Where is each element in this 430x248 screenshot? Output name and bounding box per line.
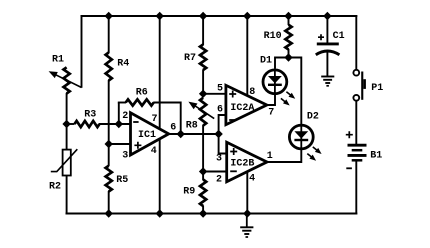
pin 1 label IC2B [267,151,273,162]
wire: R9 to bottom rail [202,206,204,214]
LED D2 light arrows [307,147,321,161]
resistor R3 body [75,121,100,127]
wire: IC1 pin 7 to top rail [159,16,161,129]
label IC2B [230,158,254,169]
wire: IC2B output to D2 [266,150,301,163]
junction: top rail / R7 [199,12,207,20]
svg-text:5: 5 [217,83,223,94]
LED D2 diode [294,126,308,149]
svg-text:1: 1 [267,151,273,162]
pin 6 label IC2A [217,104,223,115]
pin 7 label IC2A [268,107,274,118]
op-amp IC2A minus sign [229,119,235,121]
wire: top rail to R4 [108,16,110,53]
junction: top rail / R4 [105,12,113,20]
LED D2 circle [289,125,313,149]
svg-text:R1: R1 [52,55,64,66]
wire: top rail right drop to P1 [355,15,357,70]
svg-text:6: 6 [217,104,223,115]
label R4 [117,59,129,70]
svg-text:7: 7 [268,107,274,118]
resistor R10 body [285,25,291,50]
wire: IC2A pin 6 from node E [219,115,228,154]
pin 2 label IC2B [216,175,222,186]
ground symbol at C1 [321,77,334,86]
svg-text:2: 2 [216,175,222,186]
battery B1 minus sign [346,167,352,169]
svg-text:R3: R3 [84,109,96,120]
wire: top rail to R10 [288,16,290,25]
LED D1 diode [268,71,282,94]
node C junction R7/R8/IC2A pin 5 [199,90,207,98]
op-amp IC2B triangle [227,142,267,181]
pin 4 label IC1 [151,146,157,157]
label D2 [307,111,319,122]
LED D1 light arrows [281,92,295,106]
wire: node A to R2 [66,123,68,150]
trimmer R8 wiper arrow [188,102,214,119]
junction: R9 / bottom rail [199,209,207,217]
op-amp IC2A triangle [226,85,267,124]
wire: R3 to IC1 pin 2 [99,123,131,125]
junction: IC1 pin 4 / bottom rail [156,209,164,217]
wire: top rail to R7 [202,16,204,45]
resistor R7 body [200,45,206,71]
label IC1 [138,130,156,141]
wire: C1 to ground [326,53,328,77]
svg-text:R7: R7 [184,53,196,64]
label R3 [84,109,96,120]
node F junction R10/D1/D2 [284,53,292,61]
label IC2A [230,103,254,114]
junction: top rail / C1 [323,12,331,20]
wire: R6 left lead [118,102,126,104]
pushbutton P1 bottom contact [353,95,359,101]
junction: IC2B pin4 ground node [243,209,251,217]
wire: R2 bottom to rail [66,175,68,215]
pin 6 label IC1 [170,123,176,134]
svg-text:7: 7 [152,114,158,125]
label R5 [116,175,128,186]
label D1 [260,56,272,67]
wire: R8 to node D [202,125,204,172]
svg-text:R2: R2 [49,182,61,193]
svg-text:R10: R10 [264,31,282,42]
svg-text:R9: R9 [183,187,195,198]
node D junction R8/R9/IC2B pin 2 [199,167,207,175]
trimmer R8 body [200,98,206,126]
wire: node D to IC2B pin 2 [203,171,227,173]
resistor R6 body [126,99,154,105]
label P1 [371,83,383,94]
battery B1 plates [348,145,367,160]
label R10 [264,31,282,42]
wire: R7 to node C [202,70,204,94]
junction: top rail / IC2A pin 8 [243,12,251,20]
junction: top rail / IC1 pin 7 [156,12,164,20]
junction: IC1 pin 2 node [115,120,123,128]
svg-text:8: 8 [249,87,255,98]
label R6 [136,88,148,99]
pushbutton P1 top contact [353,70,359,76]
wire: node B to IC1 pin 3 [109,143,131,145]
svg-text:4: 4 [249,173,255,184]
wire: R1 bottom lead [66,93,68,124]
svg-text:P1: P1 [371,83,383,94]
svg-text:R4: R4 [117,59,129,70]
svg-text:3: 3 [122,151,128,162]
thermistor R2 body [63,150,71,176]
resistor R9 body [200,180,206,207]
pin 5 label IC2A [217,83,223,94]
wire: IC2A output to D1 [266,94,275,106]
junction: R6 / IC1 output [177,130,185,138]
label R7 [184,53,196,64]
junction: top rail / R10 [284,12,292,20]
pin 7 label IC1 [152,114,158,125]
wire: IC1 pin 4 to bottom rail [159,139,161,214]
wire: node B to R5 [108,144,110,166]
node B junction R4/R5/IC1 pin 3 [105,140,113,148]
thermistor R2 strike [51,149,78,171]
wire: P1 to battery positive [355,101,357,144]
op-amp IC1 triangle [131,113,169,155]
label C1 [333,31,345,42]
label R2 [49,182,61,193]
svg-text:4: 4 [151,146,157,157]
ground symbol [240,214,253,238]
pin 3 label IC2B [216,154,222,165]
svg-text:R5: R5 [116,175,128,186]
svg-text:B1: B1 [370,151,382,162]
junction: R5 / bottom rail [105,209,113,217]
trimmer R1 wiper arrow [49,71,82,87]
op-amp IC2A plus sign [229,91,236,98]
pin 8 label IC2A [249,87,255,98]
resistor R4 body [106,53,112,81]
svg-text:D1: D1 [260,56,272,67]
capacitor C1 curved plate [316,51,340,55]
wire: node A to R3 [67,123,75,125]
wire: +V top rail [81,15,358,17]
wire: IC2B pin 4 to bottom rail [246,171,248,214]
op-amp IC1 minus sign [133,121,138,123]
op-amp IC2B plus sign [230,148,237,155]
capacitor C1 plus sign [318,34,324,40]
wire: R10 to node F [288,49,290,58]
svg-text:6: 6 [170,123,176,134]
resistor R5 body [106,166,112,192]
wire: IC1 output pin 6 [167,133,219,135]
svg-text:2: 2 [122,111,128,122]
wire: IC2A pin 8 to top rail [246,16,248,96]
wire: R6 down to IC1 output [180,102,182,135]
node E junction IC1 out/IC2A pin6/IC2B pin3 [214,130,222,138]
svg-text:IC2B: IC2B [230,158,254,169]
LED D1 circle [263,70,287,94]
wire: left +V drop to R1 wiper [81,15,83,88]
trimmer R1 body [64,67,70,93]
op-amp IC1 plus sign [134,142,141,149]
svg-text:R6: R6 [136,88,148,99]
wire: node F to D1 anode [275,58,289,69]
capacitor C1 top plate [317,42,339,45]
op-amp IC2B minus sign [230,170,237,172]
label R9 [183,187,195,198]
svg-text:IC1: IC1 [138,130,156,141]
svg-text:C1: C1 [333,31,345,42]
wire: R6 right lead [153,102,181,104]
pin 4 label IC2B [249,173,255,184]
wire: node F to D2 anode [289,58,302,125]
wire: top rail to C1 [326,16,328,43]
pin 2 label IC1 [122,111,128,122]
pin 3 label IC1 [122,151,128,162]
svg-text:R8: R8 [186,121,198,132]
battery B1 plus sign [346,131,353,138]
wire: R5 to ground rail [108,191,110,214]
svg-text:IC2A: IC2A [230,103,254,114]
label R1 [52,55,64,66]
wire: ground bottom rail [66,213,358,215]
wire: pin2 node up to R6 [118,103,120,125]
wire: node C to IC2A pin 5 [203,93,226,95]
wire: R4 to node B [108,80,110,144]
label B1 [370,151,382,162]
wire: battery negative drop [355,161,357,215]
pushbutton P1 actuator [361,72,366,100]
svg-text:D2: D2 [307,111,319,122]
node A junction R1/R2/R3 [62,120,70,128]
label R8 [186,121,198,132]
svg-text:3: 3 [216,154,222,165]
wire: node D to R9 [202,172,204,181]
